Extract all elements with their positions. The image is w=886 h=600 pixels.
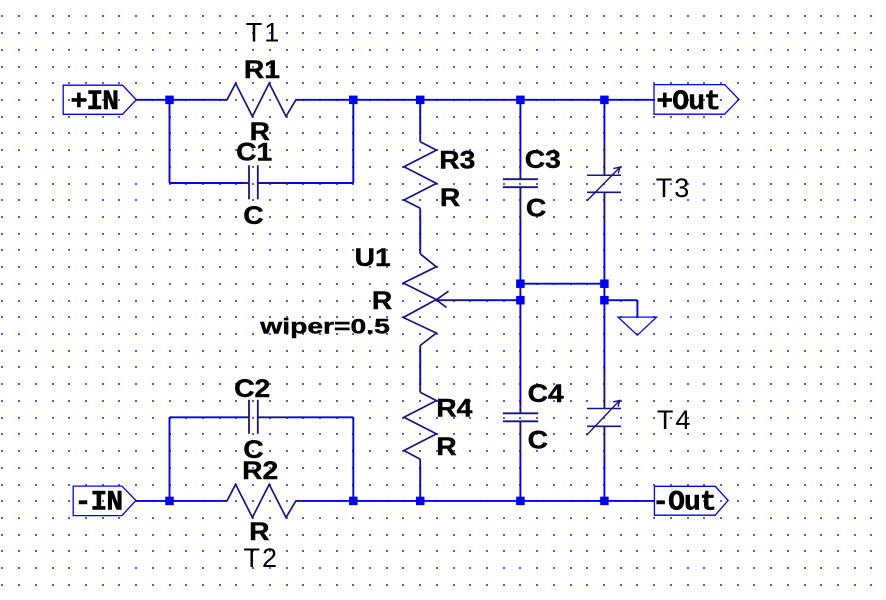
node top2 (349, 96, 358, 105)
node bot1 (165, 497, 174, 506)
wire mid row1 (520, 283, 604, 285)
trimmer T3 lead stubs (603, 141, 605, 175)
svg-text:T1: T1 (246, 18, 282, 48)
svg-text:R4: R4 (436, 394, 472, 422)
svg-text:T2: T2 (244, 543, 280, 573)
svg-text:C4: C4 (528, 379, 564, 407)
svg-text:R3: R3 (439, 146, 475, 174)
potentiometer U1 body (403, 254, 448, 346)
port +Out (654, 85, 739, 115)
wiper arrow barbs (436, 291, 448, 300)
wire C2 loop right leg (352, 417, 354, 501)
resistor R4 (404, 392, 436, 459)
wire bottom horizontal (136, 500, 221, 502)
node mid2 (600, 279, 609, 288)
trimmer T3 (587, 167, 621, 201)
node mid3 (516, 296, 525, 305)
wire C2 loop left leg (169, 417, 171, 501)
capacitor C3 (503, 179, 538, 187)
node bot4 (516, 497, 525, 506)
wire top horizontal (136, 100, 655, 501)
capacitor C1 (249, 165, 258, 199)
port -Out (654, 486, 728, 515)
svg-text:U1: U1 (355, 243, 391, 271)
wire R4 bottom lead (419, 465, 421, 501)
port -IN (73, 486, 136, 515)
svg-text:C: C (243, 202, 263, 230)
wire C2 row (170, 416, 244, 418)
capacitor C4 lead stubs (519, 407, 521, 413)
wire C3 top lead (519, 100, 521, 173)
svg-text:R2: R2 (242, 457, 278, 485)
wire T4 bottom lead (603, 455, 605, 501)
svg-text:-IN: -IN (75, 487, 123, 518)
wire C1 loop left leg (169, 100, 171, 183)
svg-text:R1: R1 (244, 55, 280, 83)
node bot5 (600, 497, 609, 506)
svg-text:T4: T4 (657, 405, 693, 435)
svg-text:T3: T3 (656, 173, 692, 203)
svg-text:C2: C2 (234, 374, 270, 402)
resistor R4 lead stubs (419, 386, 421, 392)
wire T3 bottom to T4 top (603, 221, 605, 375)
wire C1 row (170, 182, 244, 184)
svg-text:C3: C3 (525, 146, 561, 174)
capacitor C2 (249, 400, 258, 434)
wire wiper to node (470, 299, 520, 301)
svg-text:R: R (436, 433, 456, 461)
wire R3 top lead (419, 100, 421, 136)
trimmer T4 (587, 400, 622, 435)
svg-text:C1: C1 (236, 138, 272, 166)
node top1 (165, 96, 174, 105)
svg-text:+Out: +Out (656, 87, 720, 118)
node top4 (516, 96, 525, 105)
wire C4 bottom lead (519, 452, 521, 501)
wire U1 to R4 (419, 352, 421, 387)
svg-text:-Out: -Out (652, 487, 716, 518)
svg-text:R: R (249, 517, 269, 545)
node top5 (600, 96, 609, 105)
capacitor C3 lead stubs (519, 173, 521, 179)
svg-text:C: C (526, 194, 546, 222)
port +IN (63, 85, 136, 114)
node mid1 (516, 279, 525, 288)
potentiometer U1 lead stubs (419, 248, 421, 254)
capacitor C2 lead stubs (243, 416, 249, 418)
resistor R2 (227, 484, 296, 517)
junction nodes (165, 96, 608, 506)
wire node to ground (604, 299, 637, 301)
symbol lead stubs (navy overdraw) (221, 100, 605, 501)
resistor R1 lead stubs (221, 99, 228, 101)
svg-text:+IN: +IN (71, 87, 119, 118)
wire C3 bottom to C4 top (519, 218, 521, 407)
capacitor C4 (503, 413, 538, 421)
svg-text:R: R (440, 183, 460, 211)
potentiometer U1 wiper lead stub (436, 299, 470, 301)
svg-text:R: R (372, 286, 392, 314)
node top3 (416, 96, 425, 105)
trimmer T4 lead stubs (603, 375, 605, 409)
wire C1 loop right leg (352, 100, 354, 183)
ground (618, 317, 657, 335)
svg-text:wiper=0.5: wiper=0.5 (259, 315, 390, 339)
capacitor C1 lead stubs (243, 182, 249, 184)
wire T3 top lead (603, 100, 605, 141)
resistor R2 lead stubs (221, 500, 228, 502)
node bot2 (349, 497, 358, 506)
node bot3 (416, 497, 425, 506)
svg-text:C: C (528, 426, 548, 454)
resistor R3 lead stubs (419, 136, 421, 142)
resistor R1 (227, 83, 296, 116)
resistor R3 (404, 142, 436, 209)
node mid4 (600, 296, 609, 305)
wire R3 to U1 (419, 214, 421, 248)
